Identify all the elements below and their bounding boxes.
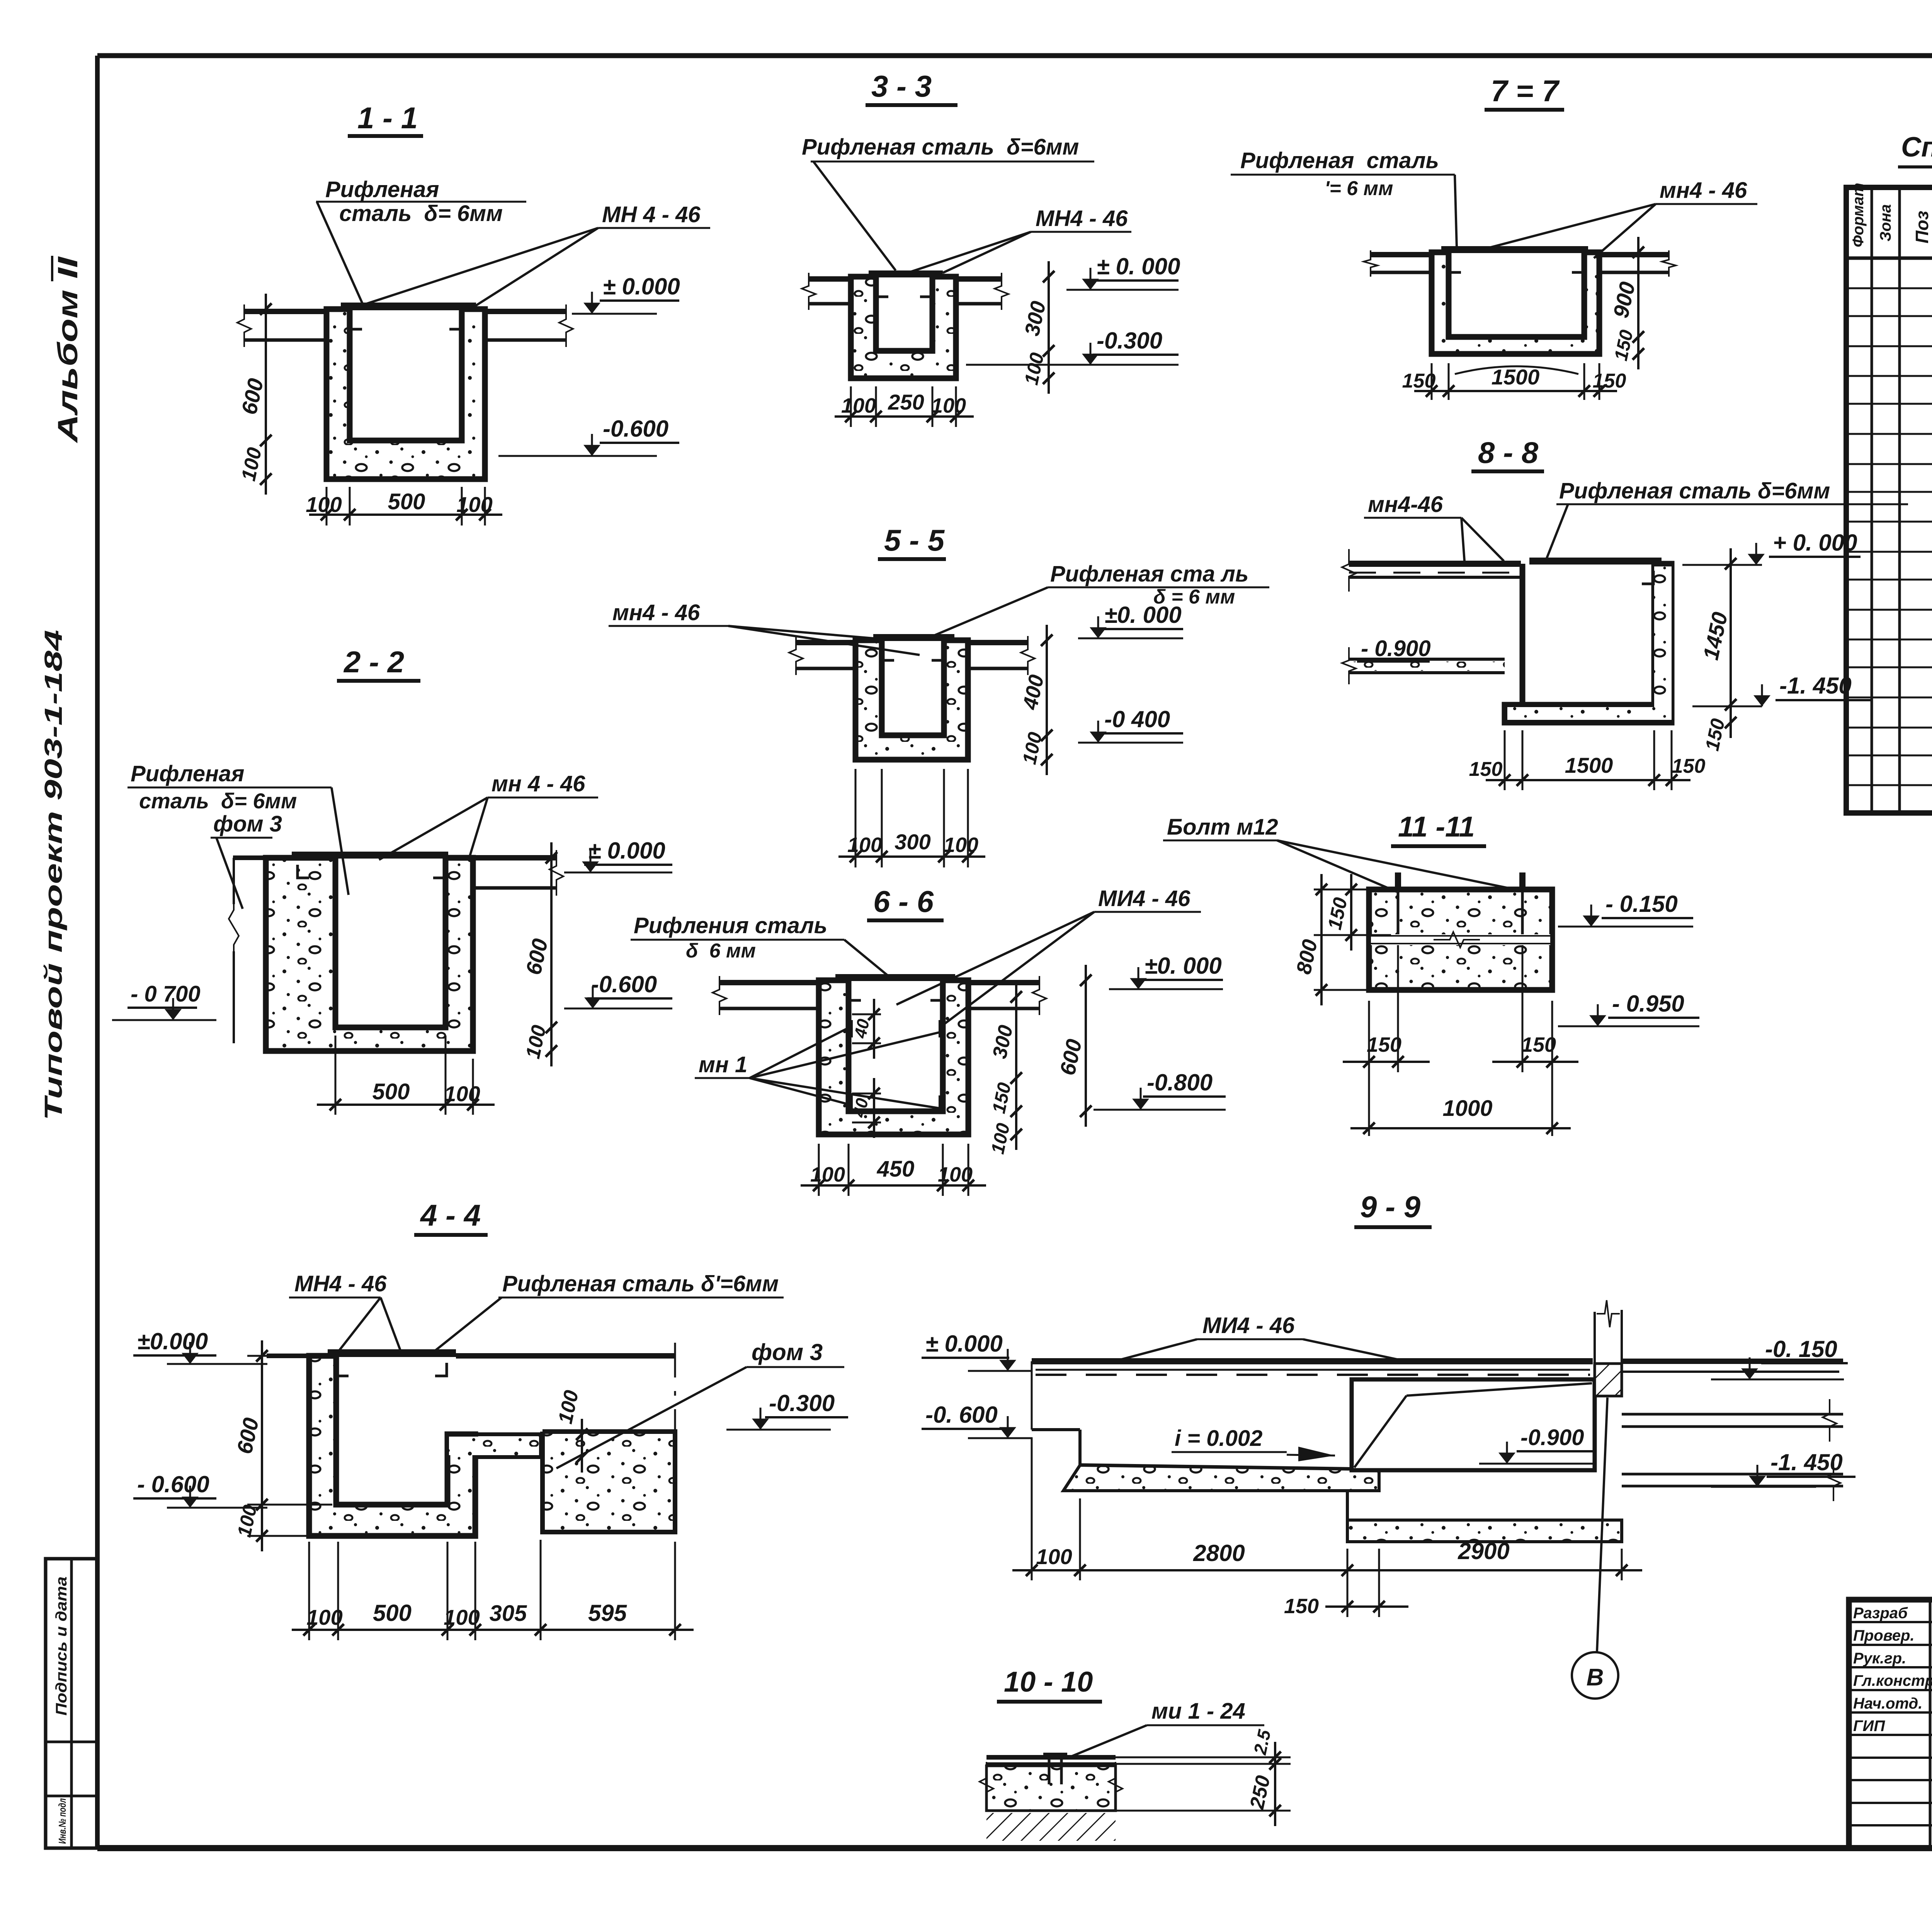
svg-text:11 -11: 11 -11 <box>1398 811 1475 843</box>
section 10-10 dims 25/250 <box>1116 1757 1291 1758</box>
svg-text:595: 595 <box>588 1600 628 1626</box>
svg-text:100: 100 <box>841 394 876 417</box>
svg-text:сталь δ= 6мм: сталь δ= 6мм <box>339 201 503 226</box>
svg-text:i = 0.002: i = 0.002 <box>1175 1426 1262 1451</box>
svg-text:Нач.отд.: Нач.отд. <box>1853 1695 1922 1712</box>
svg-text:Рук.гр.: Рук.гр. <box>1853 1650 1906 1667</box>
section 3-3 bottom dims 100/250/100 <box>850 386 852 427</box>
section 6-6 right dim 600 <box>1085 965 1087 1127</box>
svg-text:Рифления сталь: Рифления сталь <box>634 913 827 938</box>
svg-text:фом 3: фом 3 <box>752 1339 823 1365</box>
svg-text:-0.900: -0.900 <box>1520 1425 1584 1450</box>
section 1-1 riffled steel plate <box>341 303 476 310</box>
svg-text:1000: 1000 <box>1442 1096 1492 1121</box>
section 6-6 embedded plates мн1 <box>847 1020 853 1037</box>
section 9-9 top surface with riffled steel <box>1032 1358 1593 1364</box>
svg-text:δ = 6 мм: δ = 6 мм <box>1153 586 1235 608</box>
svg-text:150: 150 <box>1367 1033 1401 1056</box>
section 4-4 bottom dims 100/500/100/305/595 <box>308 1542 310 1640</box>
svg-text:1 - 1: 1 - 1 <box>357 101 418 135</box>
svg-text:±0. 000: ±0. 000 <box>1145 953 1222 979</box>
section 6-6 channel structure <box>819 980 968 1134</box>
svg-text:δ 6 мм: δ 6 мм <box>686 940 756 962</box>
svg-text:Рифленая: Рифленая <box>325 177 439 202</box>
svg-text:± 0.000: ± 0.000 <box>603 274 680 299</box>
svg-text:мн 4 - 46: мн 4 - 46 <box>492 771 585 796</box>
svg-text:ми 1 - 24: ми 1 - 24 <box>1151 1699 1245 1724</box>
svg-text:100: 100 <box>847 833 882 857</box>
section 2-2 channel structure (deep, left open) <box>266 858 473 1051</box>
svg-text:МН4 - 46: МН4 - 46 <box>1036 206 1128 231</box>
section 4-4 right block фом3 <box>543 1432 675 1532</box>
section 10-10 ground hatch <box>986 1813 1116 1841</box>
section 11-11 bottom dims 150/150 <box>1368 1001 1370 1136</box>
svg-text:Спецификация элементов монли: Спецификация элементов монлитной констру… <box>1901 132 1932 163</box>
section 7-7 right dim 900/150 <box>1637 237 1639 369</box>
section 11-11 concrete block <box>1369 889 1552 990</box>
section 4-4 middle slab <box>447 1434 541 1457</box>
svg-text:500: 500 <box>373 1600 412 1626</box>
svg-text:7 = 7: 7 = 7 <box>1491 74 1560 108</box>
svg-text:-0.300: -0.300 <box>1097 328 1162 354</box>
svg-text:5 - 5: 5 - 5 <box>884 523 945 557</box>
svg-text:Рифленая: Рифленая <box>131 761 244 786</box>
svg-text:мн4 - 46: мн4 - 46 <box>1660 178 1747 203</box>
svg-text:1500: 1500 <box>1492 365 1540 389</box>
section 9-9 dim 150 (step) <box>1378 1549 1380 1617</box>
title block outer <box>1849 1600 1932 1848</box>
section 7-7 floor slabs <box>1371 252 1432 257</box>
svg-text:100: 100 <box>931 394 966 417</box>
section 8-8 bottom dims 150/1500/150 <box>1504 730 1506 790</box>
border frame <box>95 56 100 1848</box>
left margin stamp boxes <box>46 1559 97 1848</box>
section 6-6 bottom dims 100/450/100 <box>818 1144 820 1196</box>
svg-text:9 - 9: 9 - 9 <box>1360 1190 1421 1224</box>
title block signature grid <box>1929 1600 1932 1848</box>
svg-text:-0.600: -0.600 <box>591 971 657 997</box>
svg-text:Инв.№ подл: Инв.№ подл <box>56 1798 68 1844</box>
svg-text:- 0.600: - 0.600 <box>137 1471 209 1497</box>
svg-text:'= 6 мм: '= 6 мм <box>1325 177 1393 200</box>
section 11-11 left dims 150/800 <box>1314 889 1376 891</box>
section 3-3 floor slabs <box>809 276 851 282</box>
svg-text:6 - 6: 6 - 6 <box>873 884 934 918</box>
specification table grid <box>1846 187 1932 813</box>
section 2-2 bottom dims 500/100 <box>335 1036 337 1115</box>
svg-text:- 0.900: - 0.900 <box>1361 636 1431 661</box>
svg-text:150: 150 <box>1521 1033 1556 1056</box>
svg-text:± 0. 000: ± 0. 000 <box>1097 253 1180 279</box>
svg-text:150: 150 <box>1593 370 1626 392</box>
svg-text:2800: 2800 <box>1193 1540 1245 1566</box>
svg-text:100: 100 <box>1036 1544 1072 1569</box>
section 4-4 dim 100 (slab) <box>581 1419 583 1473</box>
svg-text:Болт м12: Болт м12 <box>1167 815 1278 840</box>
section 4-4 top surface line <box>267 1354 309 1358</box>
svg-text:± 0.000: ± 0.000 <box>588 838 665 864</box>
section 5-5 floor slabs <box>796 640 855 645</box>
svg-text:450: 450 <box>877 1156 915 1182</box>
section 9-9 left end and step <box>1031 1361 1033 1430</box>
section 10-10 embedded plate ми1-24 <box>1043 1753 1067 1758</box>
svg-text:-0.600: -0.600 <box>603 416 668 442</box>
svg-text:Рифленая сталь δ=6мм: Рифленая сталь δ=6мм <box>802 134 1079 160</box>
svg-text:мн 1: мн 1 <box>699 1052 747 1077</box>
svg-text:МИ4 - 46: МИ4 - 46 <box>1202 1313 1295 1338</box>
svg-text:Провер.: Провер. <box>1853 1627 1915 1644</box>
section 8-8 channel structure (deep, left floor lower) <box>1505 564 1672 723</box>
section 2-2 top surface & plate <box>292 852 448 859</box>
svg-text:Разраб: Разраб <box>1853 1605 1908 1622</box>
section 9-9 right side double lines (pipes) <box>1622 1413 1843 1416</box>
svg-text:305: 305 <box>490 1601 527 1626</box>
section 7-7 channel structure <box>1432 252 1599 354</box>
svg-text:100: 100 <box>306 1605 342 1629</box>
svg-text:МН4 - 46: МН4 - 46 <box>294 1271 387 1296</box>
section 4-4 left dims 600/100 <box>247 1355 309 1357</box>
svg-text:300: 300 <box>895 830 930 854</box>
section 8-8 top slab with steel (dashed) <box>1349 561 1521 567</box>
svg-text:4 - 4: 4 - 4 <box>420 1198 481 1232</box>
section 5-5 bottom dims 100/300/100 <box>855 769 857 867</box>
section 9-9 axis mark В <box>1597 1398 1607 1651</box>
section 6-6 right dim chain 300/150/100 <box>1015 981 1017 1150</box>
svg-text:-0.800: -0.800 <box>1147 1070 1213 1095</box>
section 5-5 right dim 400/100 <box>1046 625 1048 775</box>
section 2-2 left break line <box>229 869 239 985</box>
svg-text:100: 100 <box>444 1082 480 1106</box>
section 7-7 riffled steel plate <box>1441 246 1588 253</box>
section 2-2 right dim 600/100 <box>550 842 553 1066</box>
svg-text:-1. 450: -1. 450 <box>1779 673 1852 699</box>
svg-text:3 - 3: 3 - 3 <box>871 69 932 103</box>
svg-text:мн4 - 46: мн4 - 46 <box>612 600 700 625</box>
svg-text:1500: 1500 <box>1565 753 1613 777</box>
section 4-4 axis line right <box>674 1343 676 1542</box>
svg-text:Зона: Зона <box>1877 204 1894 241</box>
section 8-8 lower left floor -0.900 <box>1349 658 1505 661</box>
svg-text:100: 100 <box>456 492 492 517</box>
svg-text:МН 4 - 46: МН 4 - 46 <box>602 202 701 227</box>
svg-text:Формат: Формат <box>1850 183 1867 247</box>
section 11-11 bottom dim 1000 <box>1350 1127 1571 1129</box>
svg-text:100: 100 <box>444 1605 480 1629</box>
section 11-11 mid break <box>1371 934 1550 945</box>
svg-text:2900: 2900 <box>1458 1538 1509 1564</box>
svg-text:Рифленая сталь δ'=6мм: Рифленая сталь δ'=6мм <box>502 1271 779 1296</box>
svg-text:10 - 10: 10 - 10 <box>1004 1666 1093 1698</box>
svg-text:100: 100 <box>944 833 978 857</box>
svg-text:фом 3: фом 3 <box>213 811 282 837</box>
section 6-6 floor slabs <box>719 980 819 985</box>
svg-text:- 0.950: - 0.950 <box>1612 991 1684 1017</box>
svg-text:150: 150 <box>1469 758 1503 781</box>
svg-text:- 0.150: - 0.150 <box>1605 891 1678 917</box>
svg-text:40: 40 <box>850 1096 872 1119</box>
section 11-11 bolts m12 <box>1397 889 1400 934</box>
section 10-10 slab with steel plate <box>986 1755 1116 1760</box>
section 8-8 dim 150 (base) <box>1730 707 1732 738</box>
section 5-5 channel structure <box>855 640 968 760</box>
svg-text:150: 150 <box>1284 1595 1319 1618</box>
section 1-1 bottom dimension 100/500/100 <box>326 487 328 525</box>
section 1-1 floor slabs <box>244 309 327 314</box>
svg-text:Гл.констр: Гл.констр <box>1853 1672 1932 1689</box>
section 9-9 sloped floor and base strips <box>1080 1465 1379 1469</box>
section 3-3 channel structure <box>851 277 956 378</box>
svg-text:МИ4 - 46: МИ4 - 46 <box>1098 886 1190 911</box>
section 1-1 channel structure <box>327 309 485 479</box>
svg-text:Подпись и дата: Подпись и дата <box>53 1576 70 1716</box>
svg-text:40: 40 <box>851 1017 873 1040</box>
section 9-9 right wall hatched <box>1595 1364 1622 1396</box>
svg-text:250: 250 <box>888 390 924 414</box>
svg-text:500: 500 <box>372 1079 410 1104</box>
svg-text:100: 100 <box>810 1163 845 1186</box>
svg-text:100: 100 <box>938 1163 973 1186</box>
section 7-7 inner arc dim <box>1455 366 1578 374</box>
svg-text:сталь δ= 6мм: сталь δ= 6мм <box>139 789 297 813</box>
svg-text:2 - 2: 2 - 2 <box>343 645 404 679</box>
svg-text:Рифленая ста ль: Рифленая ста ль <box>1050 561 1248 587</box>
svg-text:Рифленая сталь δ=6мм: Рифленая сталь δ=6мм <box>1559 478 1830 503</box>
section 3-3 riffled steel plate <box>869 270 943 277</box>
svg-text:-1. 450: -1. 450 <box>1770 1449 1843 1475</box>
svg-text:Типовой проект 903-1-184: Типовой проект 903-1-184 <box>39 630 67 1121</box>
section 6-6 riffled steel plate <box>835 974 955 981</box>
svg-text:-0. 600: -0. 600 <box>925 1402 998 1428</box>
section 8-8 riffled plate over channel <box>1529 558 1662 565</box>
svg-text:8 - 8: 8 - 8 <box>1478 435 1539 469</box>
svg-text:Альбом II: Альбом II <box>53 256 83 444</box>
svg-text:Поз: Поз <box>1912 211 1932 243</box>
svg-text:±0.000: ±0.000 <box>137 1328 208 1354</box>
section 8-8 dim 1450 <box>1730 548 1732 720</box>
svg-text:150: 150 <box>1672 755 1706 777</box>
section 9-9 bottom dims 100/2800/2900 <box>1031 1437 1033 1580</box>
svg-text:100: 100 <box>306 492 342 517</box>
svg-text:± 0.000: ± 0.000 <box>925 1331 1003 1357</box>
svg-text:Рифленая сталь: Рифленая сталь <box>1240 148 1439 173</box>
section 5-5 riffled steel plate <box>873 634 954 641</box>
section 7-7 bottom dims 150/1500/150 <box>1431 363 1433 400</box>
svg-text:ГИП: ГИП <box>1853 1718 1885 1735</box>
section 3-3 right dim 300/100 <box>1048 261 1050 394</box>
svg-text:500: 500 <box>388 489 425 514</box>
svg-text:150: 150 <box>1402 370 1436 392</box>
section 9-9 transverse channel (pit) <box>1352 1379 1595 1470</box>
section 2-2 right floor slab <box>473 855 556 860</box>
svg-text:-0 400: -0 400 <box>1104 706 1170 732</box>
svg-text:-0. 150: -0. 150 <box>1765 1336 1837 1362</box>
svg-text:-0.300: -0.300 <box>769 1390 835 1416</box>
svg-text:- 0 700: - 0 700 <box>131 981 201 1007</box>
section 4-4 left channel structure <box>309 1356 475 1536</box>
svg-text:В: В <box>1587 1664 1604 1691</box>
section 1-1 left dimension 600/100 <box>265 294 267 495</box>
svg-text:мн4-46: мн4-46 <box>1368 492 1443 517</box>
